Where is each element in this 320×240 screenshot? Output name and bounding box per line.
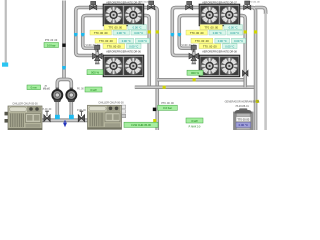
wire supply main 1 bbox=[157, 78, 245, 82]
svg-text:0.00 °C: 0.00 °C bbox=[225, 44, 234, 48]
valve V2 on DR-05 right supply bbox=[148, 1, 155, 10]
svg-text:0.00 °C: 0.00 °C bbox=[213, 31, 222, 35]
wire faint right edge line bbox=[255, 8, 266, 131]
wire pump suction U-header bbox=[57, 79, 71, 91]
svg-text:GENERADOR HERRAMIENTA: GENERADOR HERRAMIENTA bbox=[225, 101, 260, 104]
svg-text:000 %: 000 % bbox=[91, 71, 99, 75]
node tiny labels bbox=[12, 1, 260, 111]
svg-text:AEROREFRIGERANTE DR-07: AEROREFRIGERANTE DR-07 bbox=[202, 2, 237, 5]
node pump P2 flow marker bbox=[69, 115, 74, 119]
svg-text:TT0 .00 .00: TT0 .00 .00 bbox=[190, 31, 204, 35]
svg-text:78-28-88-01: 78-28-88-01 bbox=[235, 105, 249, 108]
node cyan marker far-left bbox=[2, 63, 8, 67]
svg-text:0.00 °C: 0.00 °C bbox=[129, 44, 138, 48]
svg-text:VC00 .00 .00: VC00 .00 .00 bbox=[182, 44, 197, 47]
svg-text:TT0 00.00: TT0 00.00 bbox=[139, 1, 150, 3]
value boxes right circuit bbox=[186, 25, 246, 49]
svg-text:TT0 .00 .00: TT0 .00 .00 bbox=[203, 44, 217, 48]
svg-text:0.0 bar: 0.0 bar bbox=[47, 43, 56, 47]
svg-text:TT0 .00 .00: TT0 .00 .00 bbox=[107, 44, 121, 48]
node yellow junction dots bbox=[148, 30, 259, 122]
valve manifold right hand valve bbox=[78, 111, 84, 121]
svg-text:0.00 °C: 0.00 °C bbox=[234, 39, 243, 43]
wire riser B-right from DR-07 right port to bottom edge bbox=[240, 8, 256, 131]
svg-text:P-00 .00: P-00 .00 bbox=[43, 109, 52, 111]
svg-text:0 mm: 0 mm bbox=[31, 87, 37, 90]
wire riser B-left from DR-05 right port to bottom edge bbox=[144, 8, 158, 131]
wire pump P2 discharge bbox=[70, 101, 74, 117]
valve V3 on DR-07 left supply bbox=[186, 1, 193, 9]
wire pump P1 discharge bbox=[55, 101, 59, 117]
svg-text:AEROREFRIGERANTE DR-08: AEROREFRIGERANTE DR-08 bbox=[202, 51, 237, 54]
svg-text:0.00 °C: 0.00 °C bbox=[239, 123, 248, 127]
wire right VC valve bottom stub bbox=[192, 56, 197, 64]
wire return main 2 bbox=[135, 85, 256, 89]
node cyan flow arrows bbox=[62, 33, 181, 70]
svg-text:0.00 °C: 0.00 °C bbox=[134, 31, 143, 35]
svg-text:P. MAX 0.0: P. MAX 0.0 bbox=[189, 125, 201, 128]
op-amp VC valve right (3-way mixing valve) bbox=[189, 45, 199, 60]
wire bottom manifold between chillers bbox=[41, 118, 88, 122]
green status boxes bbox=[27, 39, 203, 129]
svg-text:0 kW: 0 kW bbox=[191, 119, 198, 123]
transistor dry cooler DR-07 bbox=[199, 4, 240, 26]
svg-text:0.00 °C: 0.00 °C bbox=[117, 31, 126, 35]
svg-text:TT0 .00 .00: TT0 .00 .00 bbox=[108, 25, 122, 29]
svg-text:CHILLER CHLR-05-00: CHILLER CHLR-05-00 bbox=[12, 102, 38, 105]
svg-text:0.00 °C: 0.00 °C bbox=[122, 39, 131, 43]
valve V4 on DR-07 right supply bbox=[244, 1, 251, 10]
wire far-left thin riser bbox=[5, 0, 7, 64]
svg-text:0.00 °C: 0.00 °C bbox=[229, 25, 238, 29]
transistor chiller CHLR-05 bbox=[5, 106, 43, 130]
node pump P1 flow marker bbox=[55, 115, 60, 119]
svg-text:AEROREFRIGERANTE DR-05: AEROREFRIGERANTE DR-05 bbox=[106, 2, 141, 5]
svg-text:PT0 .00 .00: PT0 .00 .00 bbox=[45, 39, 58, 42]
svg-text:0 kW CHR-05-06: 0 kW CHR-05-06 bbox=[131, 123, 151, 127]
wire DR-07 left supply loop bbox=[172, 8, 199, 56]
wire DR-05 left supply with elbows to DR-06 bbox=[76, 8, 104, 56]
svg-text:PT0 .00 .00: PT0 .00 .00 bbox=[161, 102, 174, 105]
wire riser A-right with shutoff valve bbox=[240, 16, 246, 88]
svg-text:VC00 .00 .00: VC00 .00 .00 bbox=[86, 44, 101, 47]
node black sensor taps bbox=[62, 44, 65, 47]
svg-text:P0 .00: P0 .00 bbox=[77, 89, 84, 91]
transistor chiller CHLR-06 bbox=[88, 105, 126, 129]
svg-text:0.00 °C: 0.00 °C bbox=[218, 39, 227, 43]
op-amp VC valve left (3-way mixing valve) bbox=[93, 45, 103, 60]
svg-text:0.00 °C: 0.00 °C bbox=[138, 39, 147, 43]
svg-text:TT0 .00 .00: TT0 .00 .00 bbox=[195, 39, 209, 43]
transistor dry cooler DR-05 bbox=[103, 4, 144, 26]
svg-text:P-00 .00: P-00 .00 bbox=[77, 110, 86, 112]
wire DR-07 left return to right VC valve bbox=[179, 16, 199, 56]
wire left VC valve bottom stub bbox=[95, 56, 100, 64]
wire DR-05 left return down to mixing valve bbox=[83, 16, 104, 56]
svg-text:0.00 °C: 0.00 °C bbox=[230, 31, 239, 35]
svg-text:P0 .00: P0 .00 bbox=[43, 89, 50, 91]
svg-text:TT0 00.00: TT0 00.00 bbox=[237, 117, 249, 121]
valve manifold left hand valve bbox=[44, 111, 50, 121]
valve V1 on DR-05 left supply bbox=[90, 1, 97, 9]
value boxes left circuit bbox=[90, 25, 150, 49]
wire riser A-left from DR-05 lower right port to return main bbox=[144, 16, 150, 88]
valve V5 shutoff on riser A-right bbox=[243, 70, 249, 76]
svg-text:TT0 .00 .00: TT0 .00 .00 bbox=[248, 1, 260, 3]
svg-text:AEROREFRIGERANTE DR-06: AEROREFRIGERANTE DR-06 bbox=[106, 51, 141, 54]
capacitor buffer tank bbox=[234, 108, 254, 130]
transistor dry cooler DR-08 bbox=[199, 55, 240, 76]
svg-text:TT0 .00 .00: TT0 .00 .00 bbox=[99, 39, 113, 43]
svg-text:TT0 .00 .00: TT0 .00 .00 bbox=[94, 31, 108, 35]
svg-text:0 kW: 0 kW bbox=[90, 88, 97, 92]
wire main feed pipe to pumps bbox=[62, 1, 66, 80]
svg-text:0.00 °C: 0.00 °C bbox=[133, 25, 142, 29]
pump P1 bbox=[52, 88, 62, 102]
node blue flow arrow at manifold bbox=[63, 123, 67, 128]
svg-text:000 %: 000 % bbox=[191, 71, 199, 75]
transistor dry cooler DR-06 bbox=[103, 55, 144, 76]
svg-text:0.0 bar: 0.0 bar bbox=[163, 106, 172, 110]
pump P2 bbox=[66, 88, 76, 102]
svg-text:TT0 .00 .00: TT0 .00 .00 bbox=[204, 25, 218, 29]
svg-text:CHILLER CHLR-06-00: CHILLER CHLR-06-00 bbox=[98, 101, 124, 104]
